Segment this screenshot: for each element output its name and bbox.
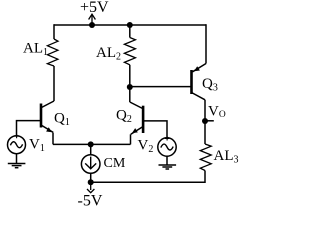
node: AL2 top rail junction dot [127,22,133,28]
Q2 emitter arrowhead [132,128,138,133]
+5V supply arrow [89,14,96,25]
wire: Q1 base to V1 [17,121,42,136]
source V1 (AC) [8,136,26,154]
node: emitter rail junction dot [88,141,94,147]
wire: junction to CM [90,144,92,154]
source V2 (AC) [158,138,176,156]
V2 plus terminal mark [165,136,169,140]
-5V supply arrow [87,182,94,192]
label AL2 [96,45,121,63]
wire: emitter rail [53,143,131,145]
wire: rail down to AL2 [129,25,131,38]
ground (V1) [8,164,26,168]
label +5V [80,0,109,16]
wire: Q2 emitter down [130,134,132,144]
ground (V2) [159,165,177,169]
wire: V2 to ground [166,156,168,165]
Q3 emitter arrowhead (PNP, points to bar) [194,66,200,71]
wire: V1 to ground [16,154,18,164]
wire: node down to Q2 collector [129,87,131,102]
svg-text:CM: CM [104,156,126,171]
wire: rail down to Q3 emitter [205,24,207,63]
wire: Q3 collector down to Vo node [204,100,206,121]
wire: node to Q3 base [130,86,192,88]
transistor Q1 (NPN) [41,101,54,132]
resistor AL2 [124,38,135,65]
label V2 [138,138,154,156]
wire: Q1 emitter down [52,133,54,145]
node: +5V junction dot [89,22,95,28]
label AL3 [214,148,239,166]
node: Q2 collector / Q3 base junction dot [127,84,133,90]
wire: rail down to AL1 [53,24,55,39]
node: Vo junction dot [202,118,208,124]
wire: Vo stub [205,120,214,122]
label Vo [208,104,226,121]
label Q2 [116,108,132,126]
resistor AL1 [47,39,58,66]
label V1 [29,137,45,155]
svg-text:+5V: +5V [80,0,109,16]
transistor Q3 (PNP) [192,64,207,100]
wire: Vo node down to AL3 [204,121,206,144]
wire: bottom rail to AL3 [91,171,205,183]
svg-text:-5V: -5V [78,193,103,210]
wire: Q2 base to V2 [143,121,167,138]
label Q3 [202,76,218,94]
V1 plus terminal mark [15,134,19,138]
label CM [104,156,126,171]
label Q1 [54,111,70,129]
wire: CM to -5V node [90,173,92,182]
wire: AL2 down to node [129,65,131,87]
label AL1 [23,41,48,59]
resistor AL3 [200,144,211,171]
label -5V [78,193,103,210]
wire: AL1 to Q1 collector [53,66,55,101]
transistor Q2 (NPN, mirrored) [130,102,143,134]
Q1 emitter arrowhead [46,127,52,132]
node: -5V junction dot [88,179,94,185]
current source CM [81,155,100,174]
wire: +5V top rail [54,24,206,26]
